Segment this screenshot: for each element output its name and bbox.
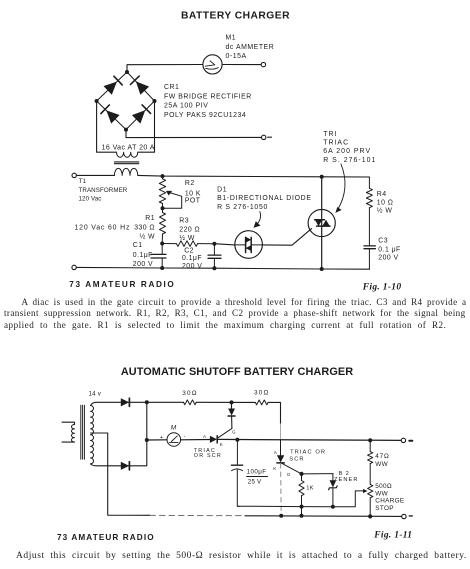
resistor R4 [366, 177, 372, 246]
svg-text:TRIAC: TRIAC [323, 140, 349, 147]
wire: bottom line dashed portion [150, 514, 245, 516]
label 120 Vac 60 Hz [75, 225, 131, 232]
svg-text:10 K: 10 K [185, 190, 201, 197]
terminal + right [401, 438, 412, 442]
labels A G K for SCR1 [203, 430, 236, 447]
junction dot R2 bottom [161, 206, 165, 210]
svg-text:10 Ω: 10 Ω [377, 199, 394, 206]
svg-text:R2: R2 [185, 180, 195, 187]
rectifier diode top [121, 398, 130, 406]
svg-text:C1: C1 [133, 242, 143, 249]
svg-text:A: A [274, 450, 278, 455]
junction dot cathode to bottom [279, 514, 283, 518]
junction dot C2 bottom [212, 266, 216, 270]
leader arrow to triac [335, 164, 345, 213]
junction dot C2 top [212, 242, 216, 246]
junction dot 1K at bottom [300, 514, 304, 518]
resistor 1K [299, 474, 304, 516]
svg-text:POLY PAKS 92CU1234: POLY PAKS 92CU1234 [164, 112, 246, 119]
transformer T1 secondary coil [117, 152, 138, 157]
resistor R3 [162, 241, 214, 247]
wire: bridge bottom to - terminal [126, 130, 262, 138]
capacitor C3 [364, 246, 375, 269]
label CR1 block [164, 84, 252, 119]
svg-text:Fig. 1-10: Fig. 1-10 [362, 282, 402, 292]
svg-text:R S 276-1050: R S 276-1050 [217, 204, 268, 211]
label T1 TRANSFORMER 120 Vac [79, 178, 128, 202]
capacitor C1 [151, 244, 166, 269]
label C3 [378, 238, 400, 262]
terminal: + output [261, 62, 265, 66]
svg-text:T1: T1 [79, 178, 87, 185]
wire: top rail [138, 175, 370, 177]
svg-text:WW: WW [375, 461, 388, 468]
label R3 220 ohm half W [179, 217, 200, 242]
svg-text:G: G [287, 472, 291, 477]
transformer T1 primary coil [114, 168, 137, 175]
wire: secondary top lead [91, 402, 122, 405]
SCR1 [210, 428, 232, 443]
diac D1 [235, 231, 263, 259]
wire: gate node to zener [302, 473, 333, 475]
svg-text:D1: D1 [217, 186, 227, 193]
svg-text:POT: POT [185, 198, 201, 205]
svg-text:½ W: ½ W [179, 234, 195, 242]
svg-text:R1: R1 [145, 215, 155, 222]
wire: cap bottom rail to pot wiper [237, 491, 364, 507]
junction dot triac bottom [320, 267, 324, 271]
svg-text:CR1: CR1 [164, 84, 179, 91]
ammeter M1 [203, 55, 222, 74]
svg-text:K: K [220, 442, 224, 447]
label 30 ohm left [182, 390, 198, 397]
svg-text:+: + [160, 435, 163, 441]
SCR2 anode drop [280, 440, 282, 455]
bridge corner junction dots [95, 70, 157, 132]
rectifier diode bottom [121, 462, 130, 470]
title: BATTERY CHARGER [181, 11, 290, 22]
svg-text:B1-DIRECTIONAL DIODE: B1-DIRECTIONAL DIODE [217, 195, 312, 202]
transformer T primary leads [62, 422, 75, 442]
svg-text:R3: R3 [179, 217, 189, 224]
potentiometer R2 [159, 176, 165, 208]
transformer T1 core [114, 162, 138, 164]
bridge rectifier CR1 diamond [97, 72, 155, 130]
wire: center tap down and along bottom [91, 433, 151, 515]
label C1 [133, 242, 153, 268]
svg-text:TRI: TRI [323, 131, 337, 138]
junction dot R1 bottom [160, 242, 164, 246]
svg-text:K: K [273, 466, 277, 471]
svg-text:ZENER: ZENER [334, 477, 359, 483]
svg-text:½ W: ½ W [377, 206, 393, 214]
terminal: bottom left [72, 265, 76, 269]
label R4 10 ohm half W [377, 191, 394, 214]
svg-text:B 2: B 2 [339, 471, 350, 477]
wire: diac to triac gate [262, 229, 311, 246]
label 14v [89, 390, 102, 397]
svg-text:1K: 1K [306, 485, 314, 491]
label 100uF 25V [247, 469, 267, 486]
svg-text:100μF: 100μF [247, 469, 267, 476]
bridge diode lower-left [101, 105, 120, 124]
svg-text:0.1μF: 0.1μF [182, 255, 202, 262]
transformer T core [81, 405, 85, 459]
svg-text:0.1 μF: 0.1 μF [378, 246, 400, 253]
triac TRI [308, 177, 335, 269]
svg-text:A: A [203, 434, 207, 439]
label C2 [182, 248, 202, 270]
wire: bridge top to ammeter [127, 65, 203, 73]
svg-text:6A 200 PRV: 6A 200 PRV [323, 148, 371, 155]
paragraph line 3 [4, 320, 446, 330]
wire: bridge right leg down to secondary [138, 101, 155, 152]
label D1 BI-DIRECTIONAL DIODE [217, 186, 312, 210]
svg-text:0-15A: 0-15A [226, 53, 247, 60]
paragraph line 2 [4, 308, 466, 318]
label 47 ohm WW [375, 453, 389, 468]
wire: top rail with resistors [147, 402, 281, 423]
svg-text:OR SCR: OR SCR [194, 453, 222, 459]
label M1 dc AMMETER 0-15A [226, 34, 275, 60]
label 500 ohm WW CHARGE STOP [375, 483, 404, 512]
meter M [167, 433, 181, 447]
label TRI TRIAC 6A 200 PRV [323, 131, 376, 164]
label 30 ohm right [254, 390, 270, 397]
caption Fig. 1-11 [373, 531, 412, 541]
svg-text:TRANSFORMER: TRANSFORMER [79, 187, 128, 194]
transformer T primary coil [71, 425, 74, 443]
wire: bottom diode up to junction [129, 402, 147, 466]
resistor R1 [160, 208, 166, 243]
svg-text:C3: C3 [378, 238, 388, 245]
svg-text:16 Vac AT 20 A: 16 Vac AT 20 A [102, 144, 155, 151]
label TRIAC OR SCR left [194, 448, 222, 459]
wire: bottom rail [76, 267, 369, 269]
junction dot capacitor top [235, 438, 239, 442]
junction dot pot bottom [368, 514, 372, 518]
leader arrow to diac [254, 212, 261, 228]
svg-text:AUTOMATIC SHUTOFF BATTERY CHAR: AUTOMATIC SHUTOFF BATTERY CHARGER [121, 366, 353, 378]
svg-text:330 Ω: 330 Ω [134, 225, 155, 232]
wire: bridge left leg down to secondary [97, 101, 117, 152]
svg-text:C2: C2 [184, 248, 194, 255]
svg-text:73 AMATEUR RADIO: 73 AMATEUR RADIO [69, 280, 175, 289]
capacitor 100uF [231, 440, 242, 507]
svg-text:FW BRIDGE RECTIFIER: FW BRIDGE RECTIFIER [164, 93, 252, 100]
svg-text:120 Vac: 120 Vac [79, 195, 102, 202]
junction dot triac top [320, 175, 324, 179]
svg-text:CHARGE: CHARGE [375, 498, 404, 505]
R2 wiper arm [163, 191, 182, 208]
svg-text:dc AMMETER: dc AMMETER [226, 44, 275, 51]
label M + - [160, 425, 186, 441]
footer 73 AMATEUR RADIO [69, 280, 175, 289]
svg-text:220 Ω: 220 Ω [179, 227, 200, 234]
transformer T secondary coil [91, 406, 94, 464]
resistor 30 ohm left [184, 400, 197, 405]
svg-text:-: - [184, 434, 186, 440]
wire: left terminal to primary [76, 174, 114, 176]
wire: bottom line right portion [245, 515, 402, 518]
svg-text:14 v: 14 v [89, 390, 102, 397]
junction dot R2 top [161, 174, 165, 178]
potentiometer 500 ohm [368, 484, 373, 516]
svg-text:WW: WW [375, 490, 388, 497]
fraction bar under 100uF [247, 476, 268, 478]
svg-text:R4: R4 [377, 191, 387, 198]
wire: ammeter to + terminal [222, 64, 261, 66]
pot wiper arrowhead [363, 489, 368, 493]
svg-text:STOP: STOP [375, 505, 393, 512]
svg-text:47Ω: 47Ω [375, 453, 389, 460]
svg-text:200 V: 200 V [378, 254, 398, 261]
svg-text:BATTERY CHARGER: BATTERY CHARGER [181, 11, 290, 22]
wire: main middle wire [147, 439, 404, 440]
title: AUTOMATIC SHUTOFF BATTERY CHARGER [121, 366, 353, 378]
terminal - right [402, 514, 413, 518]
svg-text:30Ω: 30Ω [182, 390, 198, 397]
junction dot 1K at mid wire [300, 505, 304, 509]
svg-text:SCR: SCR [289, 457, 304, 463]
terminal: - output [262, 135, 272, 139]
wire: diode to junction [129, 401, 147, 403]
label 16 Vac AT 20 A [102, 144, 155, 151]
label R1 330 ohm half W [134, 215, 155, 240]
label R2 10 K POT [185, 180, 201, 205]
labels A K G for SCR2 [273, 450, 291, 477]
junction dot rail at diode D [230, 400, 234, 404]
svg-text:73 AMATEUR RADIO: 73 AMATEUR RADIO [57, 533, 155, 542]
bridge diode upper-right [131, 76, 150, 95]
svg-text:G: G [232, 430, 236, 435]
svg-text:200 V: 200 V [133, 261, 153, 268]
SCR2 [277, 455, 302, 474]
wire: secondary bottom lead [91, 464, 122, 466]
bridge diode lower-right [132, 105, 151, 124]
junction dot 47ohm top [368, 438, 372, 442]
svg-text:200 V: 200 V [182, 263, 202, 270]
bridge diode upper-left [104, 76, 123, 95]
svg-text:M1: M1 [226, 34, 237, 41]
resistor 30 ohm right [255, 400, 268, 405]
svg-text:R S. 276-101: R S. 276-101 [323, 157, 376, 164]
label 1K [306, 485, 314, 491]
svg-text:Fig. 1-11: Fig. 1-11 [373, 531, 412, 541]
junction dot zener bottom [331, 505, 335, 509]
capacitor C2 [208, 244, 221, 269]
terminal: 120Vac top left [72, 173, 76, 177]
zener diode B2 [329, 474, 338, 507]
junction dot at rectifier mid [145, 438, 149, 442]
svg-text:M: M [171, 425, 177, 432]
label TRIAC OR SCR right [289, 449, 326, 462]
svg-text:30Ω: 30Ω [254, 390, 270, 397]
svg-text:0.1μF: 0.1μF [133, 252, 153, 259]
svg-text:500Ω: 500Ω [375, 483, 392, 490]
junction dot rectifier output top [145, 400, 149, 404]
diode to SCR1 gate [228, 402, 235, 428]
label B2 ZENER [334, 471, 359, 483]
footer 73 AMATEUR RADIO second [57, 533, 155, 542]
paragraph line 1 [22, 297, 467, 307]
svg-text:120 Vac 60 Hz: 120 Vac 60 Hz [75, 225, 131, 232]
junction dot C1 bottom [160, 266, 164, 270]
svg-text:25 V: 25 V [248, 479, 262, 486]
svg-text:25A 100 PIV: 25A 100 PIV [164, 103, 208, 110]
svg-text:TRIAC OR: TRIAC OR [290, 449, 326, 455]
junction dot gate node [299, 472, 303, 476]
SCR2 cathode dashed drop [280, 464, 283, 516]
resistor 47 ohm [368, 440, 373, 484]
wire: C2 to diac [214, 244, 234, 245]
wire: faint rail drop to main wire [280, 424, 282, 439]
caption below figure 1-11 [16, 551, 467, 561]
svg-text:½ W: ½ W [139, 232, 155, 240]
caption Fig. 1-10 [362, 282, 402, 292]
